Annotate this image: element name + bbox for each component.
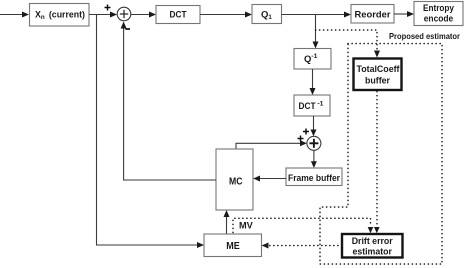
- node minus label at subtractor: [125, 28, 130, 30]
- wire MC to subtractor: [121, 22, 216, 181]
- block TotalCoeff buffer: [354, 59, 402, 91]
- wire Q1 to Reorder: [282, 12, 352, 18]
- summing junction adder: [307, 136, 321, 150]
- block Frame buffer: [286, 168, 342, 186]
- wire Qinv to DCTinv: [310, 69, 316, 95]
- block MC: [216, 149, 253, 210]
- wire adder to Frame buffer: [311, 150, 317, 168]
- node plus label at adder left: [298, 136, 304, 142]
- wire Frame buffer to MC: [253, 176, 286, 182]
- svg-text:Drift error: Drift error: [352, 236, 393, 247]
- svg-text:buffer: buffer: [365, 76, 390, 87]
- dotted wire MV to Drift estimator: [233, 218, 371, 232]
- block Xn (current): [30, 4, 90, 27]
- node plus label at adder top: [303, 129, 309, 135]
- node plus label at subtractor: [105, 5, 111, 11]
- block DCTinv: [294, 95, 330, 116]
- svg-text:TotalCoeff: TotalCoeff: [357, 64, 401, 75]
- block Entropy encode: [414, 2, 463, 26]
- svg-text:DCT: DCT: [170, 10, 187, 21]
- block ME: [204, 234, 262, 257]
- wire subtractor to DCT: [131, 12, 156, 18]
- wire DCT to Q1: [200, 12, 252, 18]
- dotted wire Drift estimator to ME: [266, 245, 342, 247]
- wire MC to adder: [236, 140, 307, 149]
- wire branch down to Qinv: [313, 15, 319, 49]
- svg-text:encode: encode: [424, 13, 454, 24]
- wire input arrow into Xn: [0, 12, 29, 18]
- svg-text:Proposed estimator: Proposed estimator: [389, 31, 461, 41]
- dotted wire TotalCoeff buffer to Drift estimator: [376, 92, 378, 227]
- block Qinv: [294, 49, 331, 70]
- block DCT: [156, 6, 200, 24]
- wire ME to MC: [224, 210, 230, 234]
- svg-text:Frame buffer: Frame buffer: [288, 173, 340, 184]
- svg-text:MC: MC: [229, 177, 243, 188]
- svg-text:MV: MV: [239, 221, 253, 231]
- dotted boundary proposed estimator region: [320, 44, 442, 265]
- svg-text:estimator: estimator: [352, 247, 392, 258]
- svg-text:ME: ME: [226, 241, 240, 252]
- dotted wire quantizer tap to TotalCoeff buffer: [316, 30, 378, 52]
- block Reorder: [351, 5, 394, 24]
- svg-text:Reorder: Reorder: [355, 9, 391, 20]
- wire Reorder to Entropy encode: [394, 11, 414, 17]
- block Q1: [252, 5, 282, 24]
- wire DCTinv to adder: [311, 116, 317, 136]
- wire branch Xn down to ME: [97, 15, 205, 249]
- summing junction subtractor: [117, 7, 131, 21]
- wire Xn to subtractor: [89, 12, 117, 18]
- block Drift error estimator: [342, 234, 403, 258]
